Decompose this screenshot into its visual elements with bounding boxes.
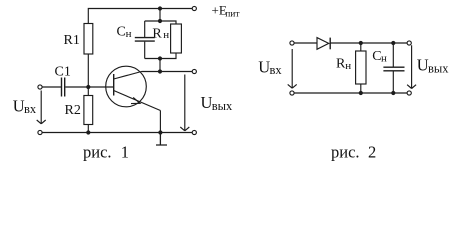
svg-text:U: U bbox=[13, 97, 25, 116]
node Rn top junction circuit 2 bbox=[359, 41, 363, 45]
node emitter junction bbox=[158, 130, 162, 134]
wire C1 to transistor base bbox=[65, 86, 113, 88]
resistor Rн circuit 1 bbox=[171, 24, 182, 53]
terminal input top circuit 2 bbox=[290, 41, 294, 45]
capacitor Cn circuit 1 bbox=[135, 21, 155, 59]
wire bottom rail circuit 1 bbox=[42, 132, 192, 134]
resistor R2 bbox=[84, 87, 93, 133]
node base junction bbox=[86, 85, 90, 89]
terminal output top circuit 1 bbox=[192, 69, 196, 73]
svg-text:C: C bbox=[117, 25, 126, 40]
arrow Uвх circuit 2 bbox=[288, 49, 297, 88]
svg-text:н: н bbox=[163, 29, 169, 41]
wire drop from top rail to CnRn block bbox=[159, 9, 161, 22]
wire R1 to base node bbox=[87, 54, 89, 87]
arrow Uвых circuit 1 bbox=[180, 75, 189, 131]
terminal output top circuit 2 bbox=[407, 41, 411, 45]
svg-text:вых: вых bbox=[428, 61, 449, 75]
arrow Uвх circuit 1 bbox=[37, 91, 46, 124]
svg-text:вых: вых bbox=[212, 99, 233, 113]
wire block to collector line bbox=[159, 59, 161, 72]
svg-text:вх: вх bbox=[270, 63, 283, 77]
svg-text:U: U bbox=[258, 57, 270, 76]
svg-text:C1: C1 bbox=[55, 65, 71, 80]
node top rail junction bbox=[158, 6, 162, 10]
terminal +Epit bbox=[192, 6, 196, 10]
svg-text:пит: пит bbox=[225, 10, 240, 20]
diode VD1 bbox=[317, 38, 330, 50]
wire input to C1 bbox=[42, 86, 61, 88]
svg-text:1: 1 bbox=[121, 142, 129, 161]
terminal input top circuit 1 bbox=[38, 85, 42, 89]
node Cn bottom junction circuit 2 bbox=[391, 91, 395, 95]
wire top rail left circuit 2 bbox=[294, 42, 317, 44]
svg-text:R2: R2 bbox=[65, 103, 81, 118]
node Cn top junction circuit 2 bbox=[391, 41, 395, 45]
arrow Uвых circuit 2 bbox=[407, 45, 416, 88]
node collector junction bbox=[158, 69, 162, 73]
svg-text:н: н bbox=[381, 53, 387, 65]
capacitor Cн circuit 2 bbox=[383, 43, 404, 93]
wire bottom rail circuit 2 bbox=[294, 92, 407, 94]
node R2 bottom junction bbox=[86, 130, 90, 134]
wire top rail right circuit 2 bbox=[330, 42, 407, 44]
terminal input bottom circuit 1 bbox=[38, 130, 42, 134]
transistor VT1 bbox=[106, 66, 161, 110]
wire block top bar bbox=[145, 21, 176, 24]
svg-text:R1: R1 bbox=[64, 33, 80, 48]
svg-text:вх: вх bbox=[24, 102, 37, 116]
wire collector node line bbox=[142, 71, 193, 73]
svg-text:н: н bbox=[345, 60, 351, 72]
node block top junction bbox=[158, 19, 162, 23]
wire top rail circuit 1 bbox=[88, 9, 192, 24]
node Rn bottom junction circuit 2 bbox=[359, 91, 363, 95]
svg-text:U: U bbox=[417, 56, 429, 75]
svg-text:рис.: рис. bbox=[331, 142, 360, 161]
terminal output bottom circuit 1 bbox=[192, 130, 196, 134]
resistor R1 bbox=[84, 24, 93, 55]
node block bottom junction bbox=[158, 56, 162, 60]
resistor Rн circuit 2 bbox=[356, 43, 366, 93]
svg-text:рис.: рис. bbox=[83, 142, 112, 161]
wire emitter to bottom rail bbox=[159, 111, 161, 133]
wire block bottom bar bbox=[145, 53, 176, 59]
svg-text:2: 2 bbox=[368, 142, 376, 161]
terminal output bottom circuit 2 bbox=[407, 91, 411, 95]
terminal input bottom circuit 2 bbox=[290, 91, 294, 95]
ground bbox=[156, 133, 167, 146]
svg-text:R: R bbox=[152, 27, 162, 42]
svg-text:U: U bbox=[201, 93, 213, 112]
svg-text:н: н bbox=[126, 28, 132, 40]
capacitor C1 bbox=[62, 78, 65, 97]
